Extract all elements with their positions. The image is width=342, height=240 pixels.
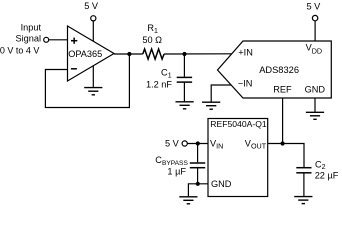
svg-text:C2: C2	[315, 159, 326, 171]
svg-text:22 µF: 22 µF	[315, 171, 339, 181]
svg-text:OPA365: OPA365	[68, 49, 102, 59]
svg-text:5 V: 5 V	[165, 139, 180, 149]
svg-text:5 V: 5 V	[307, 1, 322, 11]
voltage reference U3 REF5040A-Q1 box	[208, 119, 268, 197]
op-amp + input marker	[71, 38, 77, 44]
svg-text:R1: R1	[147, 23, 158, 35]
svg-text:1 µF: 1 µF	[167, 166, 186, 176]
svg-text:50 Ω: 50 Ω	[142, 35, 162, 45]
resistor R1 50 ohm	[142, 23, 164, 59]
svg-text:1.2 nF: 1.2 nF	[146, 80, 172, 90]
wire: ADS8326 GND pin to ground	[314, 98, 316, 112]
power 5V supply for REF5040 VIN: label, terminal circle, wire	[165, 139, 208, 149]
label: Input Signal 0 V to 4 V	[0, 22, 41, 55]
svg-text:0 V to 4 V: 0 V to 4 V	[0, 46, 39, 56]
svg-text:+IN: +IN	[238, 48, 253, 58]
svg-text:C1: C1	[161, 68, 172, 80]
capacitor C1 1.2 nF	[146, 54, 192, 102]
svg-text:Signal: Signal	[15, 33, 41, 43]
wire: +input from source circle to op-amp	[49, 39, 68, 41]
ground (REF5040 GND)	[179, 197, 197, 204]
svg-text:GND: GND	[211, 179, 232, 189]
ground (op-amp negative supply)	[84, 88, 102, 95]
wire: CBYPASS bottom / GND pin wire to ground	[188, 184, 208, 196]
svg-text:−IN: −IN	[238, 78, 253, 88]
wire: resistor to ADS8326 +IN	[164, 53, 232, 55]
node: output/feedback junction	[127, 52, 131, 56]
wire: feedback loop from output junction to inverting input	[45, 54, 129, 108]
svg-text:ADS8326: ADS8326	[259, 65, 299, 75]
op-amp - input marker	[71, 68, 77, 70]
op-amp U1 OPA365 triangle	[68, 26, 115, 81]
svg-text:REF: REF	[273, 85, 292, 95]
node: GND / CBYPASS junction	[196, 182, 200, 186]
capacitor C2 22 uF	[296, 159, 338, 196]
node: C1 junction	[182, 52, 186, 56]
ground (C2)	[294, 197, 312, 204]
svg-text:REF5040A-Q1: REF5040A-Q1	[210, 119, 267, 129]
power 5V supply for op-amp: label, terminal circle, wire	[84, 1, 99, 88]
wire: VOUT to C2	[268, 144, 304, 168]
svg-text:Input: Input	[21, 22, 42, 32]
wire: ADS8326 -IN to ground	[211, 85, 231, 102]
svg-text:GND: GND	[305, 85, 326, 95]
node: VIN / CBYPASS junction	[196, 141, 200, 145]
power 5V supply for ADS8326 VDD: label, terminal circle, wire	[307, 1, 322, 41]
ADC U2 ADS8326 body	[218, 41, 332, 98]
wire: ADS8326 REF pin down to reference node	[282, 98, 284, 144]
ground (C1)	[176, 102, 194, 109]
wire: op-amp output to resistor	[114, 53, 143, 55]
svg-text:CBYPASS: CBYPASS	[155, 155, 188, 167]
ground (ADS8326 GND)	[306, 112, 324, 119]
node: VOUT / REF junction	[281, 141, 285, 145]
ground (-IN)	[202, 102, 220, 109]
capacitor CBYPASS 1 uF	[155, 144, 205, 184]
node: input signal terminal circle	[44, 37, 49, 42]
svg-text:5 V: 5 V	[84, 1, 99, 11]
